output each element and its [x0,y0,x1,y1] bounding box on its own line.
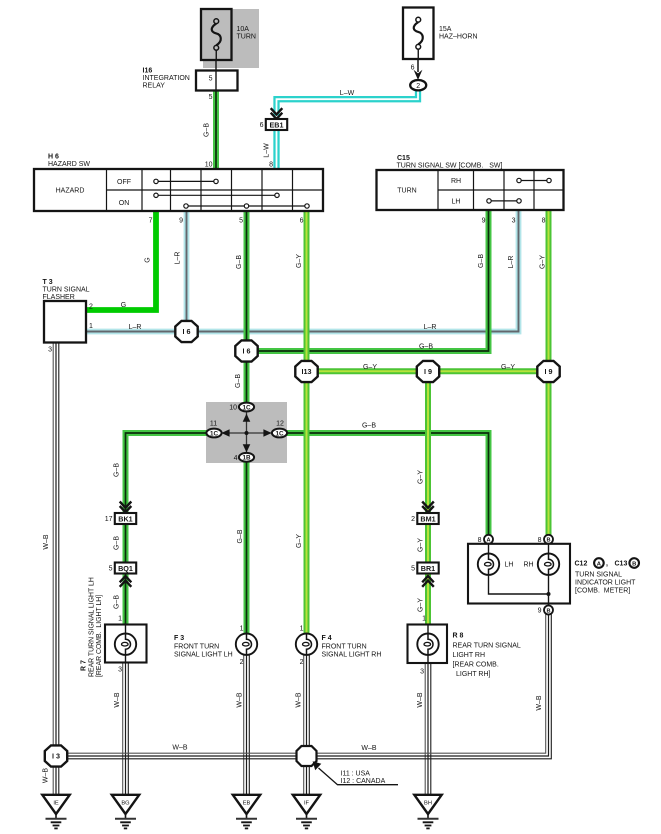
svg-text:I 9: I 9 [424,367,432,376]
connector arrow out of BR1 [422,576,434,587]
svg-text:LIGHT RH: LIGHT RH [453,652,486,659]
wire from fuse 10A to integration relay pin 5 [215,60,217,71]
svg-text:1: 1 [118,616,122,623]
svg-text:4: 4 [234,455,238,462]
svg-text:IE: IE [53,800,59,806]
svg-text:BR1: BR1 [421,564,435,573]
svg-text:G: G [145,257,152,262]
svg-text:INTEGRATION: INTEGRATION [143,75,190,82]
svg-text:L–R: L–R [508,256,515,269]
svg-text:10: 10 [205,162,213,169]
shaded block around junction connector 1C/1B [206,402,287,463]
svg-text:12: 12 [276,421,284,428]
svg-text:T 3: T 3 [43,279,53,286]
svg-text:5: 5 [239,218,243,225]
svg-text:L–R: L–R [129,324,142,331]
svg-text:TURN: TURN [237,34,256,41]
wire G-Y horizontal joining junctions I13, I9, I9 [307,368,549,374]
svg-text:C15: C15 [397,155,410,162]
ground IE [42,795,69,814]
svg-text:17: 17 [105,516,113,523]
svg-text:I 6: I 6 [183,327,191,336]
junction I13 on G-Y [295,361,317,382]
svg-text:L–R: L–R [424,324,437,331]
lamp turn signal indicator RH [538,554,559,575]
svg-text:G–Y: G–Y [296,534,303,548]
svg-text:5: 5 [209,94,213,101]
wire G from hazard switch pin 7 to flasher pin 2 [86,211,156,310]
svg-text:5: 5 [411,565,415,572]
ground IF [293,795,320,814]
connector arrow out of BQ1 [120,576,132,587]
connector 1C pin 10 [239,403,254,412]
svg-text:L–R: L–R [175,252,182,265]
svg-text:G–B: G–B [419,344,433,351]
turn signal switch C15 box [377,170,564,210]
svg-text:10: 10 [229,405,237,412]
svg-text:I 3: I 3 [52,751,60,760]
connector arrow into EB1 [271,108,283,119]
svg-text:1: 1 [300,626,304,633]
lamp R7 rear turn signal light LH [105,625,147,663]
svg-text:EB: EB [243,800,251,806]
wire G-B from integration relay pin 5 to hazard switch pin 10 [213,91,219,171]
wire W-B from flasher pin 3 to junction I3 and ground IE [52,343,54,795]
svg-text:G–Y: G–Y [418,538,425,552]
wire G-Y from junction I9 to rear turn signal light RH via BM1 and BR1 [425,371,431,624]
svg-text:[REAR COMB. LIGHT LH]: [REAR COMB. LIGHT LH] [96,595,103,677]
svg-text:W–B: W–B [361,745,377,752]
svg-text:G–Y: G–Y [363,364,377,371]
svg-text:9: 9 [538,608,542,615]
svg-text:EB1: EB1 [270,120,284,129]
svg-text:2: 2 [89,304,93,311]
ground BH [414,795,441,814]
svg-text:RELAY: RELAY [143,83,166,90]
svg-text:1B: 1B [242,455,251,462]
svg-text:3: 3 [420,669,424,676]
svg-text:ON: ON [119,200,130,207]
svg-text:W–B: W–B [172,745,188,752]
svg-text:9: 9 [179,218,183,225]
svg-text:H 6: H 6 [48,154,59,161]
svg-text:G–Y: G–Y [296,254,303,268]
svg-text:HAZ–HORN: HAZ–HORN [439,34,478,41]
svg-text:11: 11 [210,421,217,428]
svg-text:1C: 1C [210,430,219,437]
shaded block behind 10A TURN fuse [203,9,259,68]
svg-text:FRONT TURN: FRONT TURN [174,643,219,650]
fuse 10A TURN [201,9,232,60]
svg-text:W–B: W–B [43,534,50,550]
svg-text:BK1: BK1 [118,514,132,523]
svg-text:G–B: G–B [204,123,211,137]
turn signal switch RH contacts [521,180,547,182]
ground BG [112,795,139,814]
hazard switch ON contacts pins 7-8 [158,194,275,196]
svg-text:BG: BG [121,800,129,806]
svg-text:I16: I16 [143,68,153,75]
svg-text:LH: LH [452,198,461,205]
svg-text:2: 2 [411,516,415,523]
svg-text:2: 2 [416,83,420,90]
svg-text:BQ1: BQ1 [118,564,133,573]
svg-text:5: 5 [109,565,113,572]
connector BM1 pin 2 [417,513,438,524]
svg-text:G–B: G–B [114,536,121,550]
lamp F4 front turn signal light RH [296,634,317,655]
wire W-B from rear turn signal light RH to ground BH [424,663,426,795]
junction I9 on G-Y (left) [417,361,439,382]
wire L-R from flasher pin 1 through junction I6 to turn signal switch pin 3 [86,210,519,332]
hazard switch H6 box [34,169,323,211]
turn signal flasher T3 box [44,301,86,343]
svg-text:1: 1 [240,626,244,633]
svg-text:TURN SIGNAL: TURN SIGNAL [43,287,90,294]
svg-text:3: 3 [512,218,516,225]
connector BK1 pin 17 [115,513,136,524]
svg-text:I 6: I 6 [243,346,251,355]
svg-text:G: G [121,302,126,309]
node I11/I12 junction octagon [297,746,317,766]
svg-text:HAZARD: HAZARD [56,188,85,195]
note arrow I11 USA / I12 CANADA [319,768,399,785]
svg-text:FRONT TURN: FRONT TURN [322,643,367,650]
wire G-B from hazard switch pin 5 through junction I6 to connector 1C pin 10 [244,211,250,404]
svg-text:W–B: W–B [114,692,121,708]
svg-text:1: 1 [422,616,426,623]
connector BR1 pin 5 [417,563,438,574]
svg-text:I12 : CANADA: I12 : CANADA [341,778,386,785]
connector 1C pin 11 [206,429,221,438]
svg-text:BM1: BM1 [420,514,435,523]
svg-text:8: 8 [269,162,273,169]
fuse 15A HAZ-HORN [403,8,434,60]
svg-text:2: 2 [300,659,304,666]
wire W-B from rear turn signal light LH to ground BG [122,663,124,795]
wire G-B from turn signal switch pin 9 to junction I6 [247,210,489,351]
lamp turn signal indicator LH [478,554,499,575]
connector BQ1 pin 5 [115,563,136,574]
svg-text:3: 3 [118,667,122,674]
connector 1C pin 12 [272,429,287,438]
ground EB [233,795,260,814]
svg-text:SIGNAL LIGHT RH: SIGNAL LIGHT RH [322,652,382,659]
svg-text:I13: I13 [302,367,312,376]
svg-text:LH: LH [505,562,514,569]
svg-text:,: , [606,561,608,568]
relay I16 INTEGRATION RELAY pin 5 box [196,71,238,91]
junction block cross wiring [222,412,272,453]
wire W-B from front turn signal light RH through junction I11/I12 to ground IF [303,655,305,795]
svg-text:1C: 1C [242,404,251,411]
svg-text:5: 5 [209,75,213,82]
svg-text:G–Y: G–Y [501,364,515,371]
svg-text:1C: 1C [275,430,284,437]
svg-text:G–Y: G–Y [418,598,425,612]
svg-text:G–Y: G–Y [418,470,425,484]
svg-text:OFF: OFF [117,179,131,186]
wire G-Y from turn signal switch pin 8 through junction I9 to indicator pin B [546,210,552,535]
svg-text:[COMB. METER]: [COMB. METER] [575,588,630,595]
svg-text:I11 : USA: I11 : USA [341,770,371,777]
svg-text:G–B: G–B [478,254,485,268]
svg-text:L–W: L–W [264,143,271,158]
wire G-B from connector 1C pin 11 to rear turn signal light LH via BK1 and BQ1 [126,433,208,625]
wire with arrow from fuse 15A into junction 2 [417,59,419,72]
svg-text:G–B: G–B [235,374,242,388]
svg-text:B: B [546,608,550,614]
wire G-Y from hazard switch pin 6 through junction I13 to front turn signal light RH [304,211,310,634]
svg-text:W–B: W–B [296,692,303,708]
svg-text:8: 8 [542,218,546,225]
svg-text:1: 1 [89,323,93,330]
wire W-B from front turn signal light LH to ground EB [243,655,245,795]
svg-text:10A: 10A [237,26,250,33]
svg-text:6: 6 [260,122,264,129]
svg-text:G–B: G–B [114,595,121,609]
svg-text:IF: IF [304,800,310,806]
connector arrow into BK1 [120,502,132,513]
svg-text:[REAR COMB.: [REAR COMB. [453,662,499,669]
turn signal switch LH contacts [491,200,517,202]
svg-text:W–B: W–B [237,692,244,708]
svg-text:9: 9 [482,218,486,225]
svg-text:F 3: F 3 [174,635,184,642]
svg-text:RH: RH [451,178,461,185]
svg-text:15A: 15A [439,26,452,33]
svg-text:G–Y: G–Y [540,255,547,269]
svg-text:RH: RH [524,562,534,569]
svg-text:REAR TURN SIGNAL: REAR TURN SIGNAL [453,642,521,649]
svg-text:G–B: G–B [362,423,376,430]
svg-text:TURN SIGNAL: TURN SIGNAL [575,572,622,579]
svg-text:I 9: I 9 [545,367,553,376]
junction I3 on W-B [45,745,67,766]
hazard switch OFF contacts pins 7-10 [158,180,214,182]
svg-text:HAZARD SW: HAZARD SW [48,161,90,168]
node 2 (oval) [410,80,426,90]
svg-text:W–B: W–B [417,692,424,708]
wire W-B ground bus from junction I3 to turn signal indicator pin 9 [56,615,546,754]
svg-text:TURN SIGNAL SW [COMB. SW]: TURN SIGNAL SW [COMB. SW] [397,163,503,170]
svg-text:F 4: F 4 [322,635,332,642]
svg-text:C12: C12 [575,561,588,568]
svg-text:W–B: W–B [43,768,50,784]
svg-text:G–B: G–B [236,255,243,269]
svg-text:SIGNAL LIGHT LH: SIGNAL LIGHT LH [174,652,233,659]
junction I6 on G-B [235,340,257,361]
svg-text:R 8: R 8 [453,633,464,640]
wire G-B from connector 1C pin 12 to turn signal indicator pin A [287,433,489,535]
connector arrow into BM1 [422,502,434,513]
svg-text:BH: BH [424,800,432,806]
wire L-R from hazard switch pin 9 to junction I6 [184,211,190,332]
turn signal indicator light box [468,544,570,604]
wire G-B from connector 1B pin 4 to front turn signal light LH [244,461,250,634]
svg-text:6: 6 [300,218,304,225]
connector 1B pin 4 [239,453,254,462]
svg-text:R 7: R 7 [81,660,88,671]
svg-text:C13: C13 [615,561,628,568]
svg-text:2: 2 [240,659,244,666]
junction I9 on G-Y (right) [537,361,559,382]
connector EB1 pin 6 [266,119,287,130]
svg-text:FLASHER: FLASHER [43,294,75,301]
svg-text:7: 7 [149,218,153,225]
svg-text:G–B: G–B [114,463,121,477]
svg-text:INDICATOR LIGHT: INDICATOR LIGHT [575,580,636,587]
wire L-W from junction 2 to connector EB1 to hazard switch pin 8 [277,90,419,170]
hazard switch ON contacts pins 9-5-6 [188,205,305,207]
svg-text:TURN: TURN [397,188,416,195]
svg-text:3: 3 [48,347,52,354]
svg-text:REAR TURN SIGNAL LIGHT LH: REAR TURN SIGNAL LIGHT LH [89,577,96,677]
svg-text:B: B [632,562,636,568]
svg-text:L–W: L–W [340,90,355,97]
lamp R8 rear turn signal light RH [408,625,448,664]
junction I6 on L-R [175,321,197,342]
svg-text:LIGHT RH]: LIGHT RH] [456,671,491,678]
svg-text:G–B: G–B [237,529,244,543]
svg-text:W–B: W–B [536,695,543,711]
lamp F3 front turn signal light LH [236,634,257,655]
